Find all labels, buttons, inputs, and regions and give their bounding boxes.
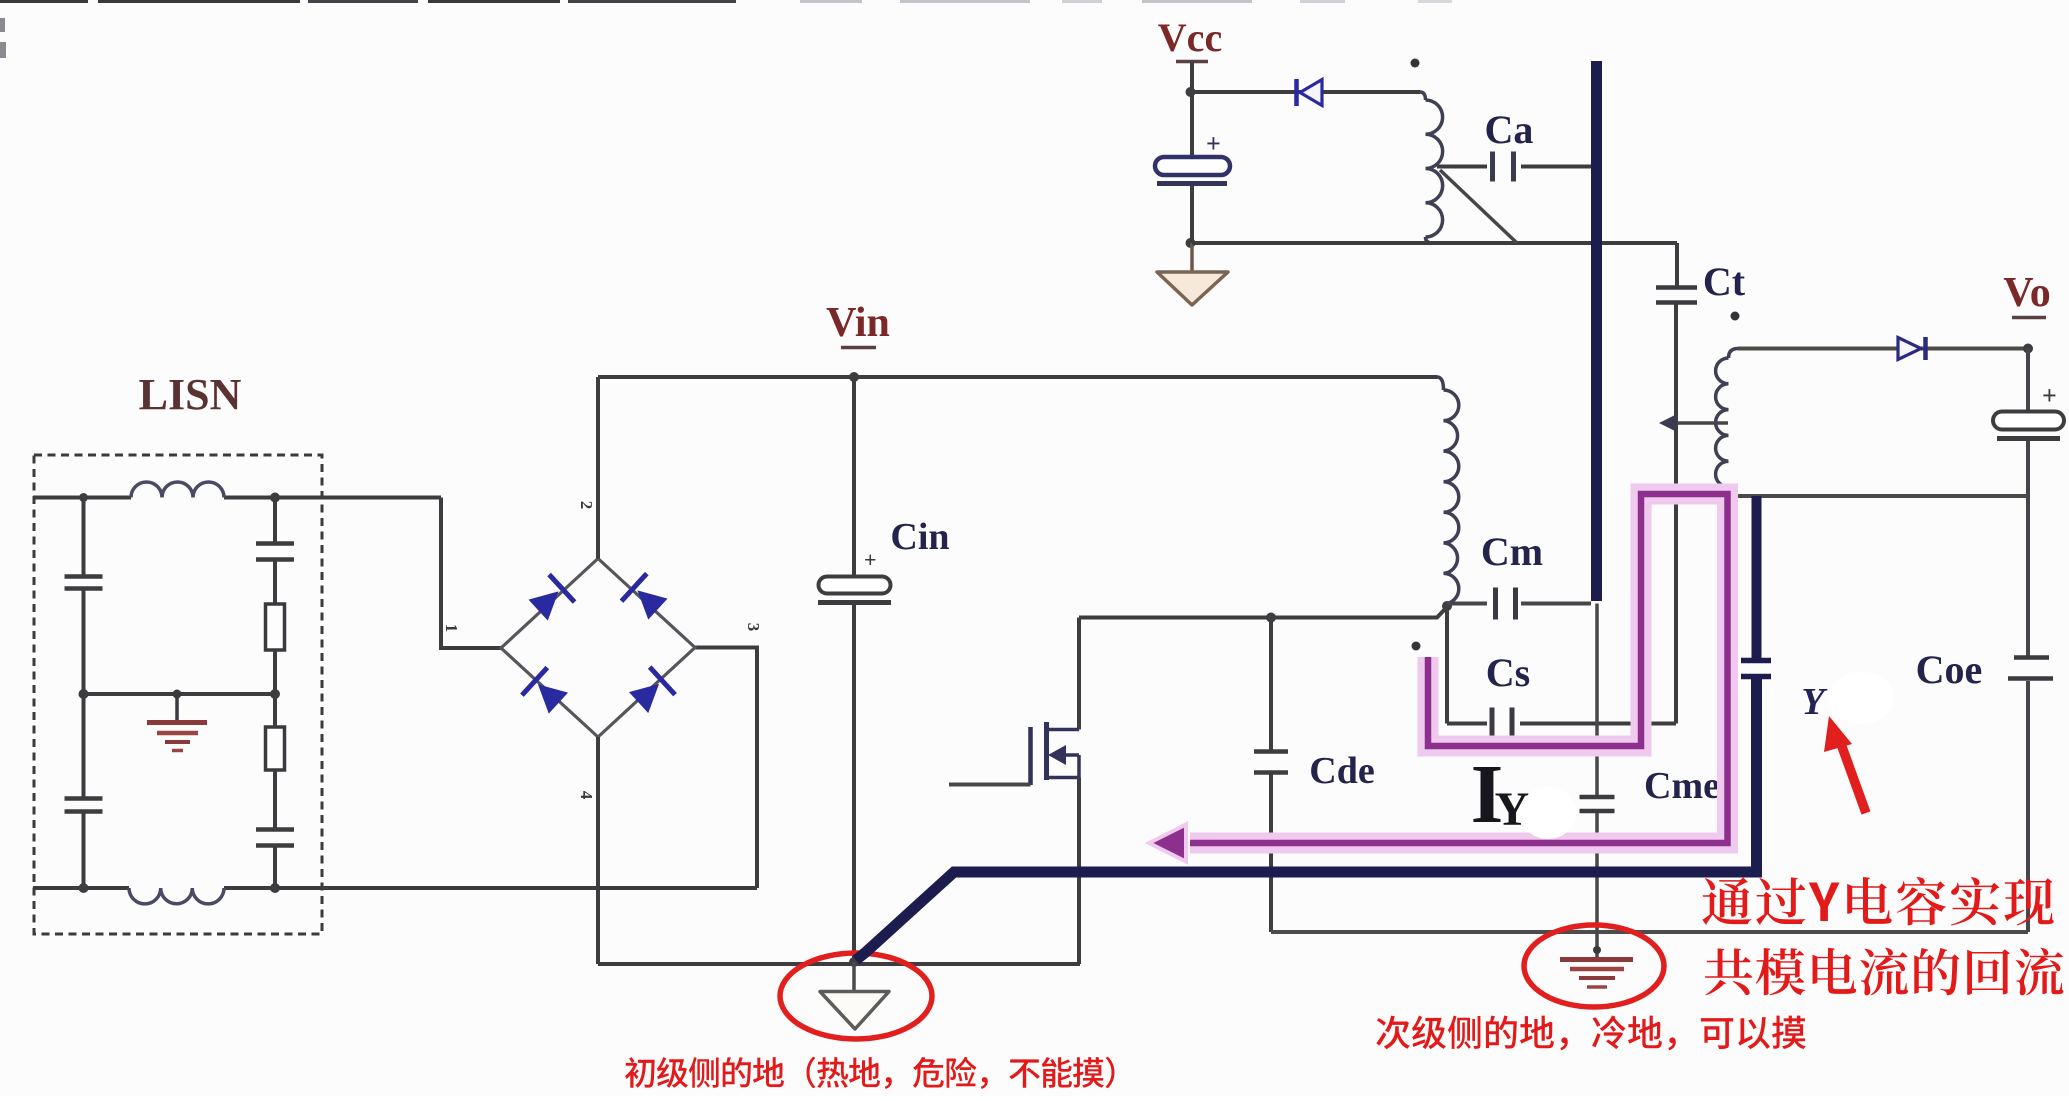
wire: output vertical bbox=[2026, 349, 2030, 413]
wire: MOSFET drain from primary winding bbox=[1079, 607, 1447, 618]
common-mode current path (magenta) bbox=[1190, 494, 1728, 843]
red arrow pointing at Y bbox=[1841, 744, 1866, 813]
wire bbox=[852, 605, 856, 962]
white patch 1 bbox=[1520, 787, 1576, 839]
wire: primary bottom down bbox=[1445, 606, 1449, 724]
capacitor Cs bbox=[1490, 708, 1495, 740]
svg-text:Ct: Ct bbox=[1703, 259, 1746, 304]
wire: bottom line up to bridge node 3 bbox=[695, 648, 757, 889]
wire: LISN top to bridge node 1 bbox=[441, 498, 501, 649]
wire: Vcc vertical bbox=[1190, 62, 1194, 158]
cropped text artifact top edge bbox=[0, 0, 88, 3]
wire: LISN top line bbox=[33, 496, 131, 500]
wire: Cme branch bbox=[1595, 604, 1599, 798]
wire: secondary ground rail bbox=[1271, 930, 2028, 934]
wire: Cin branch bbox=[852, 377, 856, 577]
secondary phase dot bbox=[1731, 312, 1740, 321]
junction dots LISN bbox=[79, 493, 88, 502]
wire bbox=[1595, 813, 1599, 932]
transformer primary winding bbox=[1437, 377, 1444, 390]
LISN enclosure (dashed box) bbox=[34, 455, 322, 934]
red ellipse (primary ground highlight) bbox=[780, 953, 932, 1039]
svg-text:+: + bbox=[864, 547, 877, 572]
diode D1 (bridge upper-left) bbox=[525, 574, 574, 623]
red ellipse (secondary ground highlight) bbox=[1524, 925, 1664, 1007]
wire bbox=[2026, 681, 2030, 932]
thick navy node line (switching node) bbox=[1591, 61, 1602, 601]
svg-text:Ca: Ca bbox=[1485, 107, 1534, 152]
capacitor Cm bbox=[1493, 588, 1498, 620]
svg-text:4: 4 bbox=[577, 791, 596, 800]
resistor (LISN right upper) bbox=[266, 604, 285, 650]
capacitor (LISN right upper) bbox=[256, 541, 294, 546]
transformer secondary winding bbox=[1729, 349, 1739, 359]
capacitor Ca bbox=[1490, 152, 1495, 182]
svg-text:Cin: Cin bbox=[890, 516, 949, 558]
inductor L2 (LISN bottom) bbox=[129, 888, 224, 904]
resistor (LISN right lower) bbox=[266, 727, 285, 770]
annotation: secondary ground note bbox=[1376, 1016, 1806, 1051]
arrow head IY (points left) bbox=[1149, 825, 1186, 862]
capacitor Cme bbox=[1580, 795, 1615, 800]
Y capacitor branch (navy) bbox=[1752, 496, 1762, 659]
svg-text:Vin: Vin bbox=[826, 300, 890, 346]
wire: secondary bottom bbox=[1738, 494, 2028, 498]
wire: secondary top bbox=[1738, 347, 2028, 351]
node Vin bbox=[849, 372, 859, 382]
svg-text:Vo: Vo bbox=[2003, 270, 2050, 316]
svg-text:Cde: Cde bbox=[1309, 750, 1374, 792]
wire: bridge node 4 to primary ground rail bbox=[596, 737, 600, 964]
svg-text:Cm: Cm bbox=[1481, 529, 1543, 574]
wire bbox=[82, 812, 86, 888]
svg-text:Cme: Cme bbox=[1644, 765, 1720, 807]
bridge rectifier outline bbox=[501, 559, 695, 738]
wire: down to Ct bbox=[1675, 243, 1679, 287]
wire: Vcc to aux diode bbox=[1192, 90, 1420, 94]
tap with arrow to secondary winding bbox=[1672, 421, 1728, 425]
capacitor (LISN right lower) bbox=[256, 827, 294, 832]
wire: MOSFET source to ground rail bbox=[1077, 778, 1081, 965]
svg-text:LISN: LISN bbox=[139, 370, 242, 419]
svg-text:+: + bbox=[1206, 129, 1221, 158]
wire: Ct to Cs node bbox=[1674, 304, 1678, 724]
wire: Cm bbox=[1447, 602, 1487, 606]
inductor L1 (LISN top) bbox=[131, 482, 224, 498]
capacitor Y bbox=[1741, 658, 1771, 664]
wire: LISN middle horizontal bbox=[84, 692, 276, 696]
capacitor (LISN left upper) bbox=[65, 574, 103, 579]
wire: LISN right branch bbox=[273, 498, 277, 544]
navy return path to primary ground bbox=[856, 678, 1757, 960]
annotation: via Y-cap line 1 bbox=[1702, 877, 2053, 926]
diode D2 (bridge upper-right) bbox=[621, 574, 670, 623]
annotation: via Y-cap line 2 bbox=[1705, 948, 2063, 996]
wire: aux bottom rail bbox=[1192, 241, 1677, 245]
annotation: primary ground note bbox=[625, 1057, 1115, 1089]
svg-text:+: + bbox=[2042, 381, 2057, 410]
wire: Cde branch bbox=[1269, 618, 1273, 752]
wire: Vin rail bbox=[598, 375, 1437, 379]
wire bbox=[1269, 774, 1273, 932]
svg-text:Y: Y bbox=[1801, 681, 1828, 723]
wire: aux mid tap to Ca bbox=[1437, 165, 1487, 169]
wire: primary ground rail bbox=[598, 962, 1080, 966]
wire: Cs bbox=[1447, 722, 1487, 726]
svg-text:1: 1 bbox=[442, 624, 461, 633]
svg-text:Cs: Cs bbox=[1486, 650, 1530, 695]
capacitor (LISN left lower) bbox=[65, 796, 103, 801]
svg-text:2: 2 bbox=[577, 501, 596, 510]
wire: bridge node 2 to Vin rail bbox=[596, 377, 600, 559]
wire: LISN bottom line bbox=[33, 886, 129, 890]
aux phase dot bbox=[1411, 59, 1420, 68]
white patch 2 bbox=[1828, 672, 1894, 724]
wire: LISN left branch bbox=[82, 498, 86, 577]
primary phase dot bbox=[1412, 642, 1421, 651]
transistor Q1 (MOSFET) bbox=[1077, 618, 1081, 730]
diode D3 (bridge lower-left) bbox=[522, 668, 571, 717]
capacitor Cde bbox=[1254, 749, 1288, 754]
diode D4 (bridge lower-right) bbox=[626, 667, 675, 716]
LISN earth ground bbox=[175, 694, 179, 720]
svg-text:Vcc: Vcc bbox=[1158, 15, 1222, 60]
secondary ground symbol bbox=[1595, 932, 1599, 957]
diode D6 (aux rectifier) bbox=[1300, 80, 1322, 106]
wire bbox=[82, 589, 86, 798]
capacitor Coe bbox=[2014, 655, 2049, 660]
wire: aux diagonal lead bbox=[1440, 170, 1517, 243]
ground (Vcc) bbox=[1190, 243, 1194, 272]
svg-text:Coe: Coe bbox=[1916, 647, 1983, 692]
svg-text:3: 3 bbox=[744, 623, 763, 632]
transformer aux winding bbox=[1420, 92, 1426, 100]
primary ground symbol bbox=[852, 962, 856, 991]
capacitor Ct bbox=[1656, 285, 1697, 290]
diode D5 (output rectifier) bbox=[1898, 338, 1921, 360]
